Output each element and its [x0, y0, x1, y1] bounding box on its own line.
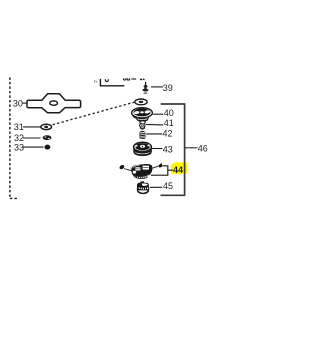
label 46 dash [185, 147, 198, 149]
cropped arrow marks (top) [140, 79, 142, 81]
part 40 (drive pulley) [132, 108, 153, 124]
label line 40 [153, 113, 163, 115]
label line 45 [150, 186, 163, 188]
screw 39 [142, 82, 148, 94]
dashed line 31 to washer [53, 102, 135, 125]
label line 39 [151, 86, 163, 88]
part 44 (trimmer head housing) [119, 163, 163, 179]
label 44 dash [168, 169, 173, 171]
bracket 46 [161, 104, 185, 195]
svg-text:42: 42 [162, 129, 172, 139]
svg-text:30: 30 [13, 98, 23, 108]
svg-text:40: 40 [164, 108, 174, 118]
label line 42 [146, 133, 162, 135]
svg-text:44: 44 [173, 165, 183, 175]
cropped figure corner (top) [100, 79, 124, 86]
part 33 [45, 145, 51, 150]
svg-text:31: 31 [14, 122, 24, 132]
spring 42 [140, 131, 146, 139]
label line 33 [23, 146, 44, 148]
label line 31 [23, 126, 41, 128]
svg-text:33: 33 [14, 142, 24, 152]
label line 41 [146, 123, 163, 126]
svg-text:45: 45 [163, 181, 173, 191]
bracket 44 [151, 166, 168, 175]
svg-text:41: 41 [164, 118, 174, 128]
part 45 (bump knob) [137, 181, 149, 193]
svg-text:46: 46 [198, 143, 208, 153]
cropped text glyph bottoms (top edge) [105, 78, 136, 81]
dashed left border (cropped dashed box corner) [10, 77, 18, 198]
spool 43 [134, 142, 152, 155]
part 30 (cross plate) [27, 94, 81, 113]
svg-text:43: 43 [163, 144, 173, 154]
yellow highlight on 44 [171, 162, 188, 174]
label line 32 [23, 137, 41, 139]
nut 32 [43, 135, 52, 140]
svg-text:39: 39 [163, 83, 173, 93]
label line 43 [152, 148, 163, 150]
washer above part 40 [135, 99, 147, 105]
cropped faint glyphs left of corner [94, 80, 97, 82]
washer 31 [41, 124, 52, 129]
part 41 (spool hub bolt) [139, 124, 145, 130]
label 30 dash [22, 102, 27, 104]
